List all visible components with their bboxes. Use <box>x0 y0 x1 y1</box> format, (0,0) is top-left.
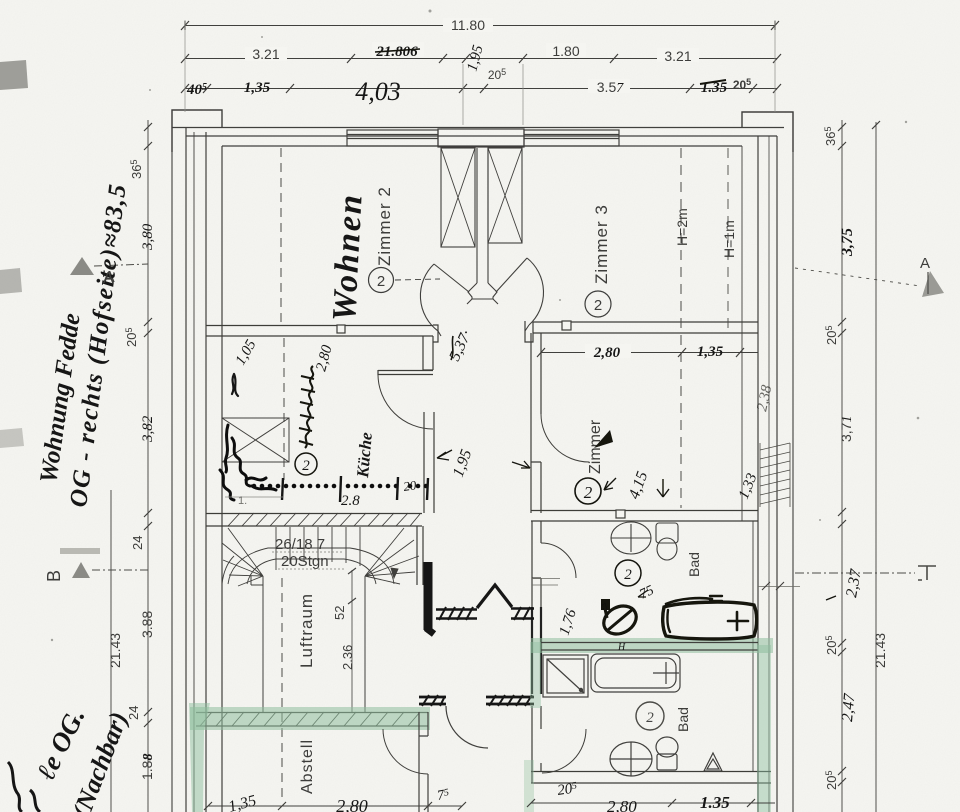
top-right pillar <box>742 112 793 152</box>
Zimmer1 bottom wall <box>531 511 758 522</box>
socket on wall <box>616 510 625 518</box>
extension line right <box>774 20 776 112</box>
hatched knee wall Zimmer1 right <box>760 443 790 507</box>
hand scribble over pantry <box>220 425 276 500</box>
dashed line kitchen <box>283 338 285 480</box>
stair walk line outer <box>228 548 394 584</box>
stairs top hatched wall <box>206 513 422 526</box>
Bad2 shower <box>543 655 588 697</box>
svg-text:4,03: 4,03 <box>355 77 401 106</box>
bottom dim left (Abstell) <box>204 802 466 810</box>
luftraum void outline <box>251 576 365 712</box>
chimney left flue with X <box>441 148 475 247</box>
Bad2 bidet <box>704 753 722 771</box>
svg-text:1.88: 1.88 <box>139 754 156 780</box>
svg-text:2: 2 <box>302 458 310 474</box>
dashed line Abstell/Luftraum <box>281 578 283 802</box>
svg-text:2: 2 <box>594 297 602 314</box>
svg-text:1,35: 1,35 <box>244 80 271 96</box>
stair right wall <box>417 526 423 585</box>
stair right winders <box>365 528 419 584</box>
svg-text:Bad: Bad <box>686 552 702 577</box>
stair left winders <box>222 528 263 586</box>
svg-text:52: 52 <box>332 606 347 620</box>
svg-text:Luftraum: Luftraum <box>297 593 316 668</box>
svg-text:H=1m: H=1m <box>721 220 737 258</box>
Bad1 wc printed <box>656 523 678 560</box>
circle 2 Bad1 hand <box>615 560 641 586</box>
svg-text:Abstell: Abstell <box>299 739 316 794</box>
Bad1 sink printed <box>611 522 651 554</box>
hand wall bar vertical <box>424 562 433 630</box>
svg-text:2: 2 <box>377 273 385 290</box>
hand arrow after Zimmer <box>594 430 613 448</box>
section marker B left <box>44 548 148 582</box>
svg-text:24: 24 <box>130 536 145 550</box>
extension line mid <box>463 64 523 125</box>
hand hatched bar left <box>436 607 477 620</box>
svg-text:Zimmer 3: Zimmer 3 <box>592 204 611 284</box>
kitchen counter dotted line <box>252 484 429 489</box>
left wall lines <box>171 110 173 812</box>
svg-text:2,80: 2,80 <box>593 345 621 361</box>
extension line left <box>184 20 186 112</box>
circle 2 Zimmer1 hand <box>575 478 601 504</box>
svg-text:H: H <box>617 642 626 653</box>
top-left pillar <box>172 110 222 152</box>
butterfly right jamb <box>525 321 533 342</box>
Bad2 door arc <box>542 729 586 773</box>
Bad2 left wall lower <box>532 729 541 783</box>
svg-text:1.35: 1.35 <box>700 793 730 812</box>
Bad1 door arc <box>541 543 576 578</box>
top wall outer line <box>172 127 784 129</box>
svg-text:1.: 1. <box>238 495 247 507</box>
svg-text:21.43: 21.43 <box>872 633 888 668</box>
Bad2 sink <box>610 742 652 776</box>
right chain ticks <box>838 123 846 786</box>
chimney stem walls <box>477 148 488 283</box>
svg-text:Bad: Bad <box>675 707 691 732</box>
green vertical right of baths <box>757 645 771 812</box>
circle 2 Bad2 hand <box>636 702 664 730</box>
svg-text:20Stgn: 20Stgn <box>281 553 329 570</box>
chimney right flue with X <box>488 148 522 243</box>
double swing door (butterfly) <box>420 258 543 336</box>
chimney head box <box>438 129 524 147</box>
bottom dim right (Bad) <box>527 799 775 807</box>
wall Zimmer3 bottom <box>533 322 758 333</box>
left chain ticks <box>144 123 152 727</box>
top wall mid line <box>186 135 777 137</box>
svg-text:Zimmer 2: Zimmer 2 <box>375 186 394 266</box>
svg-text:2,80: 2,80 <box>336 796 368 812</box>
svg-text:1.80: 1.80 <box>552 43 579 59</box>
circle 2 kitchen hand <box>295 453 317 475</box>
hand hatched bar right <box>511 607 534 620</box>
abstell door arc <box>383 729 428 774</box>
svg-text:3.21: 3.21 <box>252 46 279 62</box>
hand mark above pantry <box>232 374 238 396</box>
green vertical left of bath2 <box>530 642 541 708</box>
kitchen door jamb <box>423 336 433 370</box>
top wall inner face <box>222 145 742 147</box>
kitchen dim faint <box>225 496 283 498</box>
stair left edge arcs <box>222 556 234 584</box>
svg-text:3,80: 3,80 <box>140 223 156 251</box>
svg-text:B: B <box>44 570 64 582</box>
Zimmer1 left wall upper <box>531 333 541 414</box>
Bad2 wc <box>656 737 678 770</box>
svg-text:H=2m: H=2m <box>674 208 690 246</box>
dashed line H=1m <box>727 148 729 333</box>
svg-text:2: 2 <box>646 710 654 726</box>
section marker F right <box>795 566 936 580</box>
counter hand ticks <box>282 476 428 502</box>
pantry X box <box>222 418 289 462</box>
kitchen scribble word vertical <box>299 366 315 448</box>
hall bottom left wall piece <box>532 607 541 694</box>
svg-text:26/18 7: 26/18 7 <box>275 536 325 553</box>
svg-text:20: 20 <box>402 477 417 494</box>
svg-text:3,75: 3,75 <box>839 228 856 257</box>
svg-text:11.80: 11.80 <box>451 17 485 33</box>
green wall bath top <box>531 638 773 653</box>
green streak bottom of bath2 <box>524 760 534 812</box>
window W1 sill <box>347 130 438 146</box>
dim line row2 <box>181 54 781 63</box>
hand wall bar bottom left <box>419 695 446 706</box>
Bad1 hand bathtub <box>663 596 757 639</box>
right chain line <box>841 120 843 812</box>
open door leaves (tent) <box>477 585 512 608</box>
Zimmer1 door arc <box>541 414 589 462</box>
kitchen door leaf <box>378 370 433 375</box>
bath wall printed <box>541 643 758 651</box>
hall left wall <box>424 412 434 513</box>
stair walk line inner <box>247 559 376 584</box>
Bad2 bottom wall <box>531 772 771 784</box>
hand wall bar bottom right <box>486 695 534 706</box>
right wall lines <box>741 146 743 521</box>
svg-text:2,47: 2,47 <box>839 692 858 722</box>
dim line row3 <box>181 84 781 93</box>
svg-text:A: A <box>103 270 114 287</box>
stair treads straight run <box>276 527 360 570</box>
svg-text:2: 2 <box>624 567 632 583</box>
socket on wall <box>337 325 345 333</box>
svg-text:3,82: 3,82 <box>140 415 156 443</box>
section marker A left <box>70 257 148 286</box>
svg-text:3,71: 3,71 <box>838 416 855 442</box>
svg-text:2: 2 <box>584 483 593 502</box>
right chain2 line <box>875 122 877 812</box>
svg-text:1,35: 1,35 <box>697 344 724 360</box>
svg-text:3.21: 3.21 <box>664 48 691 64</box>
circle 2 Zimmer3 <box>585 291 611 317</box>
hall bottom door arc <box>446 706 488 748</box>
circle 2 Zimmer2 <box>369 268 441 293</box>
dashed line Wohnen <box>280 148 282 322</box>
Zimmer1 left wall lower <box>531 414 541 513</box>
svg-text:3.57: 3.57 <box>597 79 624 96</box>
Bad1 left wall lower <box>532 543 541 607</box>
svg-text:2.36: 2.36 <box>340 645 355 670</box>
Bad1 left wall <box>532 521 541 543</box>
svg-text:Wohnen: Wohnen <box>326 192 370 322</box>
left chain2 line 21.43 <box>110 490 112 812</box>
zimmer1 interior dim <box>537 348 758 357</box>
Bad2 left wall <box>532 706 541 729</box>
wall Wohnen bottom <box>206 326 433 337</box>
luftraum dim line 52/2.36 <box>351 570 353 712</box>
hand arrows Zimmer1 <box>604 478 616 490</box>
svg-text:Küche: Küche <box>353 431 376 479</box>
svg-text:A: A <box>920 255 930 272</box>
section marker A right <box>795 255 944 297</box>
butterfly left jamb <box>433 325 438 342</box>
Bad1 hand wc <box>599 599 641 639</box>
svg-text:3.88: 3.88 <box>139 611 155 638</box>
socket on wall <box>562 321 571 330</box>
stair arrow head <box>391 568 398 578</box>
dim line 11.80 <box>181 21 779 30</box>
left chain line <box>147 120 149 812</box>
svg-text:2,80: 2,80 <box>607 797 637 812</box>
abstell door jamb <box>419 712 428 812</box>
left edge artifacts <box>0 60 28 90</box>
svg-text:21.43: 21.43 <box>107 633 123 668</box>
dashed line H=2m <box>680 148 682 508</box>
window W2 sill <box>524 130 619 146</box>
kitchen door swing arc <box>378 375 433 429</box>
Bad2 bathtub <box>591 654 680 692</box>
svg-text:2.8: 2.8 <box>341 493 360 509</box>
green wall Abstell top <box>189 703 430 812</box>
